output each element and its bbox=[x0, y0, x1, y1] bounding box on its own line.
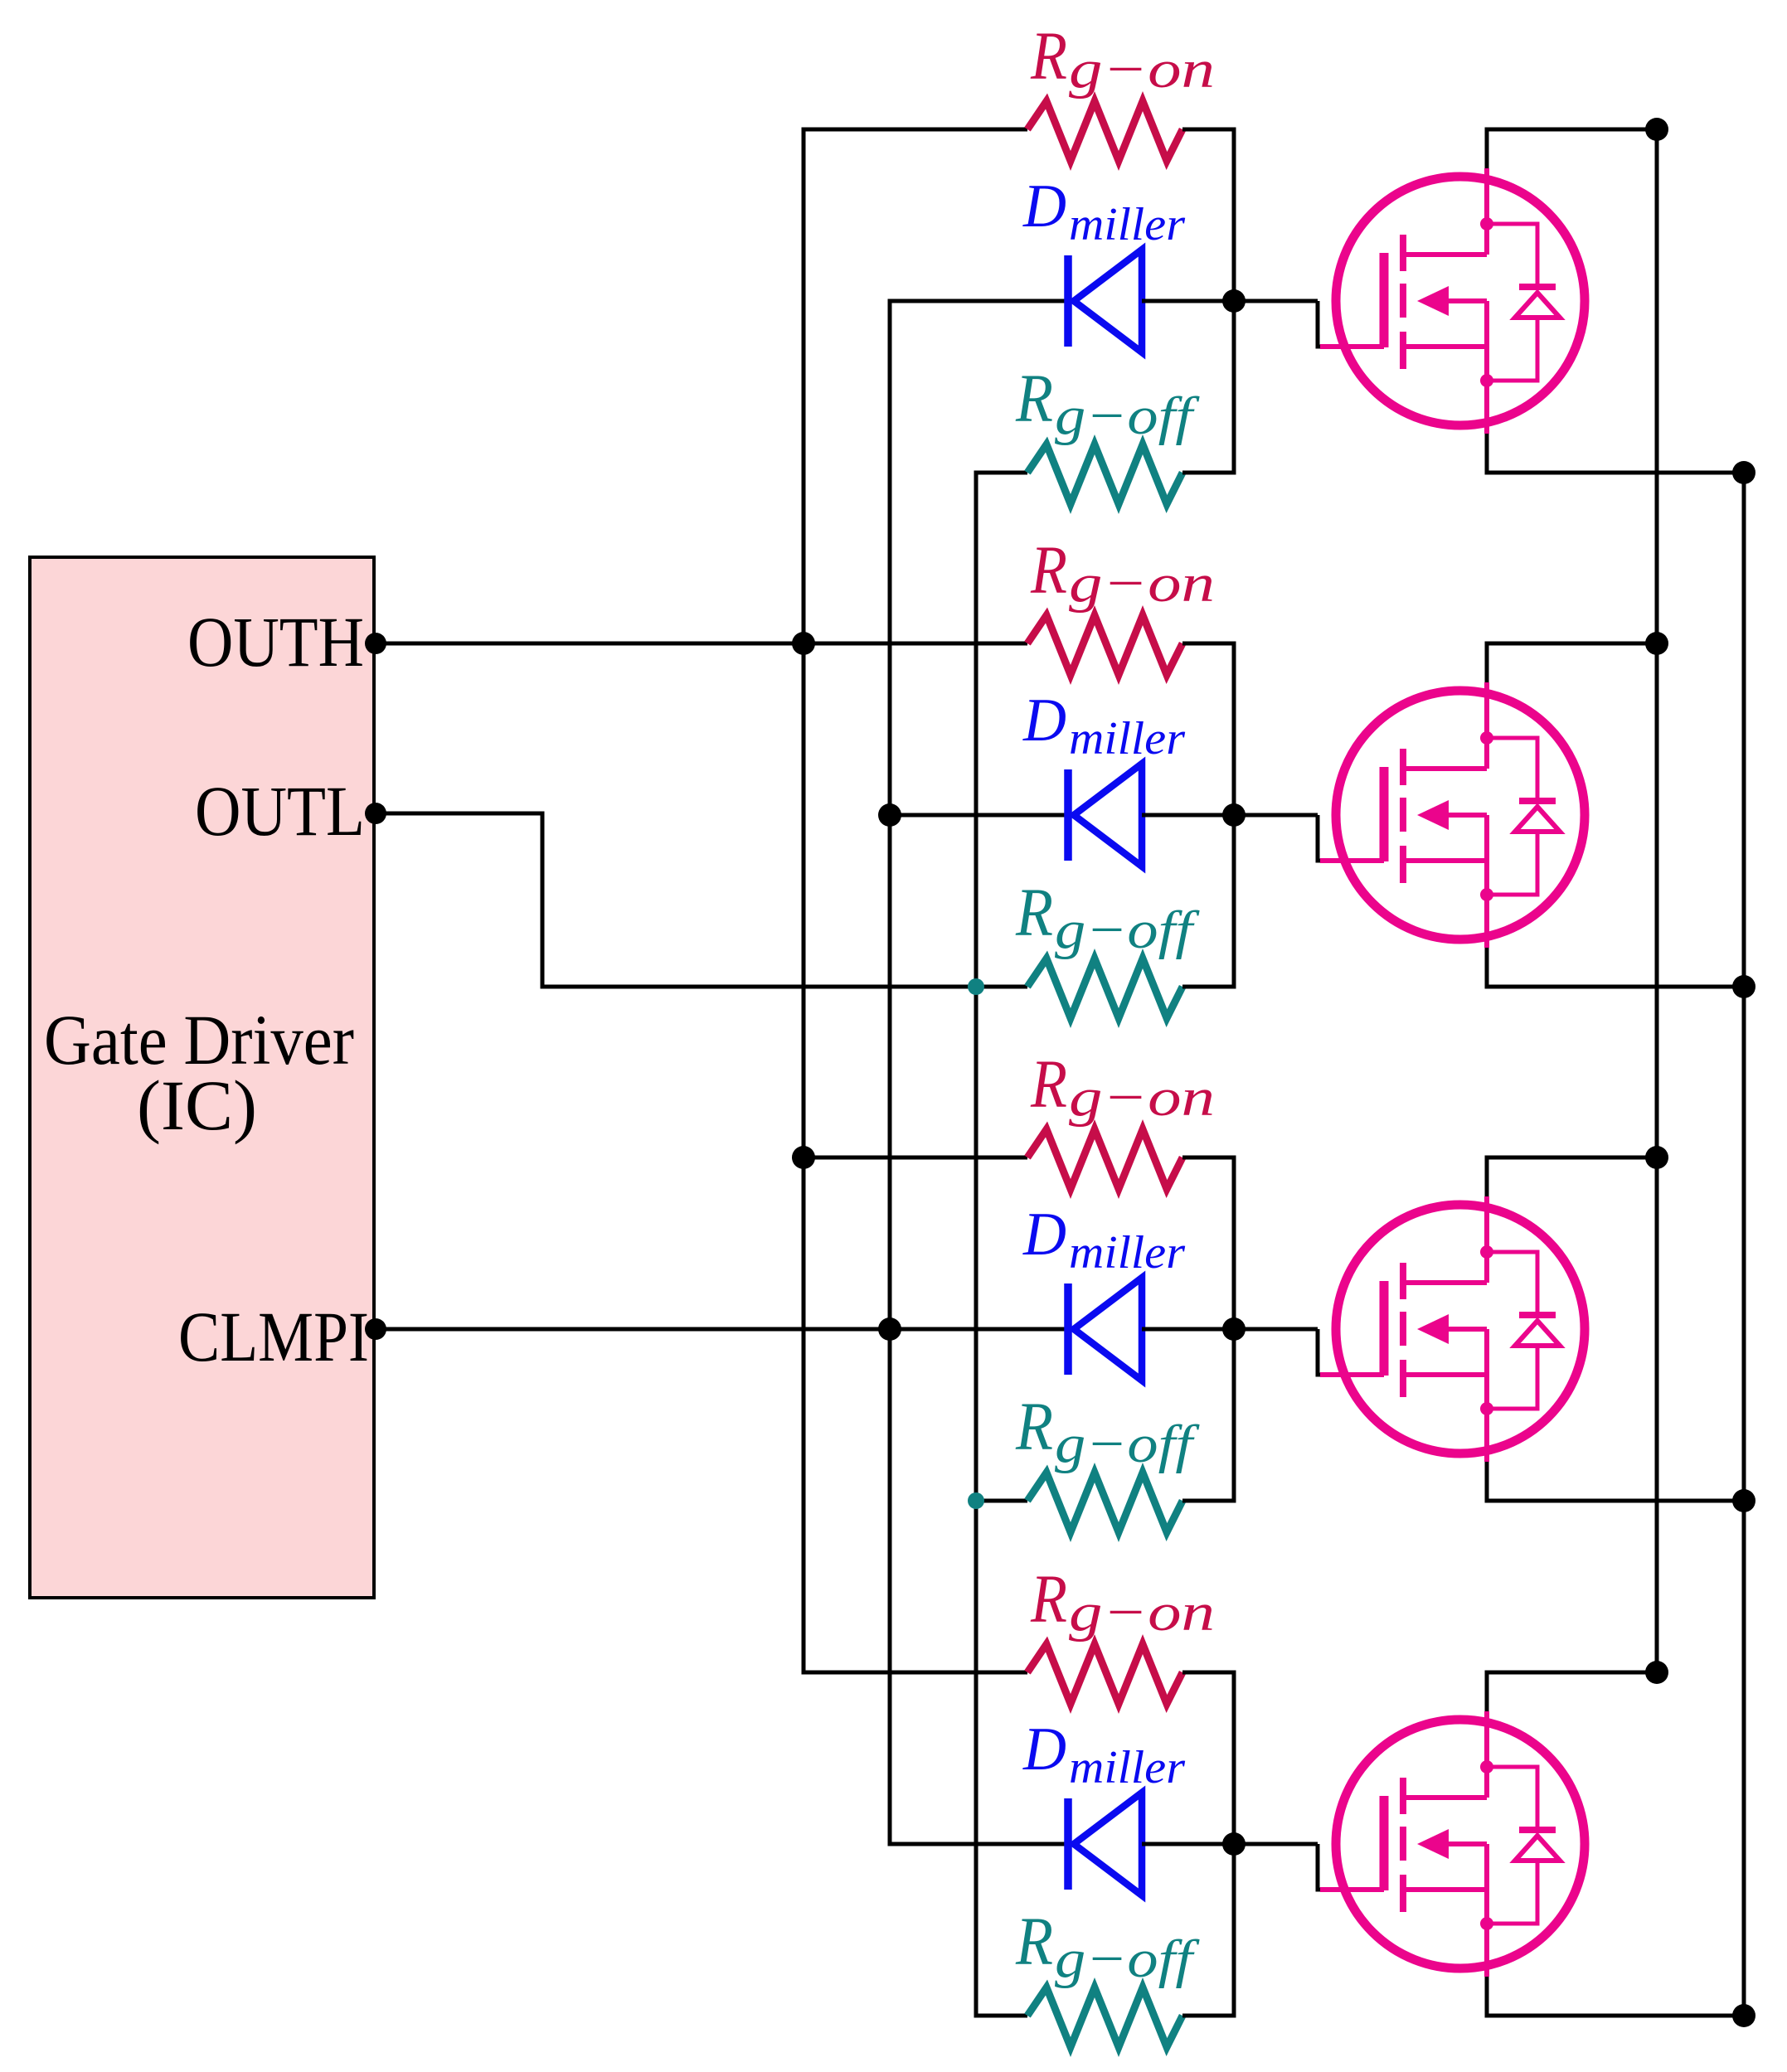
node Rg-off3 bus junction bbox=[968, 1492, 984, 1509]
wire CLMPI bus vertical bbox=[890, 301, 1065, 1844]
wire cell3 right vertical bbox=[1182, 1157, 1234, 1501]
wire Dmiller1 anode lead bbox=[1142, 299, 1234, 303]
wire Dmiller2 cathode lead bbox=[890, 813, 1065, 818]
wire gate1 horizontal bbox=[1234, 299, 1318, 303]
svg-text:D: D bbox=[1022, 687, 1066, 755]
wire Dmiller3 anode lead bbox=[1142, 1327, 1234, 1332]
svg-text:miller: miller bbox=[1069, 1742, 1185, 1793]
transistor Q1 (SiC MOSFET) bbox=[1320, 168, 1585, 434]
svg-text:g−on: g−on bbox=[1069, 1583, 1215, 1643]
svg-text:D: D bbox=[1022, 172, 1066, 240]
wire cell4 right vertical bbox=[1182, 1672, 1234, 2016]
wire Q1 drain connection bbox=[1487, 129, 1657, 168]
diode Dmiller (cell 1) bbox=[1068, 250, 1142, 352]
svg-text:R: R bbox=[1015, 360, 1053, 436]
gate driver IC box U1 bbox=[30, 557, 374, 1598]
resistor Rg-on (cell 3) bbox=[1027, 1129, 1182, 1189]
node Dmiller3 bus junction bbox=[878, 1317, 901, 1341]
transistor Q3 (SiC MOSFET) bbox=[1320, 1196, 1585, 1462]
wire Q1 source connection bbox=[1487, 434, 1744, 473]
svg-text:miller: miller bbox=[1069, 199, 1185, 250]
svg-text:miller: miller bbox=[1069, 1227, 1185, 1279]
wire gate4 horizontal bbox=[1234, 1842, 1318, 1846]
wire Q2 source connection bbox=[1487, 948, 1744, 987]
resistor Rg-off (cell 3) bbox=[1027, 1473, 1182, 1532]
svg-text:miller: miller bbox=[1069, 713, 1185, 764]
diode Dmiller (cell 3) bbox=[1068, 1278, 1142, 1381]
svg-text:D: D bbox=[1022, 1715, 1066, 1783]
wire Q3 source connection bbox=[1487, 1462, 1744, 1501]
node OUTL pin dot bbox=[365, 803, 386, 824]
svg-text:g−off: g−off bbox=[1055, 1929, 1200, 1989]
wire Q2 drain connection bbox=[1487, 643, 1657, 682]
wire OUTL feed bbox=[374, 813, 1027, 987]
node Rg-on3 bus junction bbox=[792, 1146, 815, 1169]
node gate junction (cell 1) bbox=[1222, 289, 1246, 313]
svg-text:g−on: g−on bbox=[1069, 40, 1215, 99]
node Dmiller2 bus junction bbox=[878, 803, 901, 827]
svg-text:R: R bbox=[1015, 874, 1053, 950]
wire Q3 drain connection bbox=[1487, 1157, 1657, 1196]
svg-text:(IC): (IC) bbox=[137, 1065, 257, 1145]
resistor Rg-on (cell 2) bbox=[1027, 615, 1182, 675]
diode Dmiller (cell 2) bbox=[1068, 764, 1142, 866]
wire gate2 step bbox=[1318, 815, 1320, 861]
wire OUTL bus vertical bbox=[976, 473, 1027, 2016]
wire source bus vertical bbox=[1742, 473, 1746, 2016]
wire Dmiller4 anode lead bbox=[1142, 1842, 1234, 1846]
wire CLMPI feed bbox=[374, 1327, 1065, 1332]
node gate junction (cell 2) bbox=[1222, 803, 1246, 827]
svg-text:R: R bbox=[1015, 1388, 1053, 1464]
svg-text:g−off: g−off bbox=[1055, 386, 1200, 446]
wire Rg-off3 left lead bbox=[976, 1499, 1027, 1503]
svg-text:R: R bbox=[1030, 531, 1067, 608]
wire Dmiller2 anode lead bbox=[1142, 813, 1234, 818]
node Q3 source bus junction bbox=[1732, 1489, 1755, 1512]
node gate junction (cell 3) bbox=[1222, 1317, 1246, 1341]
svg-text:OUTL: OUTL bbox=[195, 771, 365, 851]
node CLMPI pin dot bbox=[365, 1318, 386, 1340]
wire gate3 horizontal bbox=[1234, 1327, 1318, 1332]
svg-text:g−off: g−off bbox=[1055, 1414, 1200, 1474]
svg-text:g−off: g−off bbox=[1055, 900, 1200, 960]
wire Q4 drain connection bbox=[1487, 1672, 1657, 1711]
resistor Rg-on (cell 1) bbox=[1027, 101, 1182, 161]
transistor Q2 (SiC MOSFET) bbox=[1320, 682, 1585, 948]
svg-text:R: R bbox=[1030, 1560, 1067, 1637]
resistor Rg-off (cell 1) bbox=[1027, 444, 1182, 504]
diode Dmiller (cell 4) bbox=[1068, 1793, 1142, 1895]
svg-text:g−on: g−on bbox=[1069, 554, 1215, 614]
node OUTH pin dot bbox=[365, 633, 386, 654]
wire gate1 step bbox=[1318, 301, 1320, 347]
svg-text:CLMPI: CLMPI bbox=[178, 1297, 369, 1376]
wire gate3 step bbox=[1318, 1329, 1320, 1375]
node Q2 source bus junction bbox=[1732, 975, 1755, 998]
resistor Rg-on (cell 4) bbox=[1027, 1644, 1182, 1704]
svg-text:D: D bbox=[1022, 1201, 1066, 1269]
resistor Rg-off (cell 2) bbox=[1027, 958, 1182, 1018]
svg-text:R: R bbox=[1030, 17, 1067, 94]
svg-text:R: R bbox=[1030, 1046, 1067, 1122]
wire cell2 right vertical bbox=[1182, 643, 1234, 987]
resistor Rg-off (cell 4) bbox=[1027, 1987, 1182, 2047]
wire Rg-on3 left lead bbox=[804, 1156, 1027, 1160]
node gate junction (cell 4) bbox=[1222, 1832, 1246, 1856]
node Rg-off2 bus junction bbox=[968, 978, 984, 995]
wire drain bus vertical bbox=[1655, 129, 1659, 1672]
wire cell1 right vertical bbox=[1182, 129, 1234, 473]
svg-text:R: R bbox=[1015, 1903, 1053, 1979]
transistor Q4 (SiC MOSFET) bbox=[1320, 1711, 1585, 1977]
wire OUTH bus vertical bbox=[804, 129, 1027, 1672]
node Q1 source bus junction bbox=[1732, 461, 1755, 484]
node OUTH bus junction bbox=[792, 632, 815, 655]
wire Q4 source connection bbox=[1487, 1977, 1744, 2016]
svg-text:g−on: g−on bbox=[1069, 1068, 1215, 1128]
node Q3 drain bus junction bbox=[1645, 1146, 1668, 1169]
wire OUTH feed bbox=[374, 642, 1027, 646]
svg-text:OUTH: OUTH bbox=[187, 602, 364, 682]
wire gate2 horizontal bbox=[1234, 813, 1318, 818]
wire gate4 step bbox=[1318, 1844, 1320, 1890]
node Q1 drain bus junction bbox=[1645, 118, 1668, 141]
node Q2 drain bus junction bbox=[1645, 632, 1668, 655]
node Q4 drain bus junction bbox=[1645, 1661, 1668, 1684]
node Q4 source bus junction bbox=[1732, 2004, 1755, 2027]
